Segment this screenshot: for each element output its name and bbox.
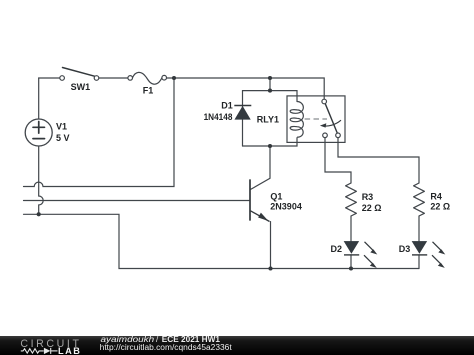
wire node A horizontal y186 with hop and vertical to top rail	[24, 78, 175, 187]
V1 labels	[56, 122, 70, 143]
relay dashed link	[305, 118, 327, 120]
svg-text:SW1: SW1	[71, 82, 91, 92]
wire V1 top lead	[38, 78, 40, 119]
wire D1 top rail	[243, 91, 298, 102]
junction node coil tap top	[268, 76, 272, 80]
diode D1	[234, 106, 251, 120]
transistor Q1	[250, 180, 270, 222]
svg-text:22 Ω: 22 Ω	[430, 202, 450, 212]
junction node D1 top rail	[268, 89, 272, 93]
junction node V1 negative	[37, 212, 41, 216]
wire emitter lead	[270, 222, 272, 269]
relay terminal pins	[322, 99, 327, 104]
svg-text:D2: D2	[331, 244, 343, 254]
junction node F1-right	[172, 76, 176, 80]
fuse F1	[128, 72, 167, 84]
wire bottom net y214 to bottom rail	[24, 214, 420, 268]
footer bar	[0, 336, 474, 355]
svg-text:22 Ω: 22 Ω	[362, 203, 382, 213]
wire relay NO lead to R4	[338, 138, 419, 183]
relay RLY1 box	[287, 96, 345, 142]
LED D2	[344, 241, 377, 268]
junction node D1 bottom rail	[268, 144, 272, 148]
svg-text:D1: D1	[221, 100, 233, 110]
switch SW1	[60, 68, 99, 81]
relay actuation arrow	[320, 120, 341, 127]
wire D1 branch vertical	[242, 91, 244, 146]
svg-text:Q1: Q1	[270, 191, 282, 201]
svg-text:RLY1: RLY1	[257, 115, 279, 125]
wire between SW1 and F1	[99, 77, 128, 79]
resistor R3	[346, 183, 357, 216]
Q1 labels	[270, 191, 302, 211]
svg-text:1N4148: 1N4148	[204, 112, 233, 122]
junction node emitter-ground	[268, 266, 272, 270]
wire D2 to bottom rail	[350, 255, 352, 269]
wire R4 to D3	[418, 216, 420, 241]
wire coil tap to top rail	[269, 78, 271, 91]
wire D3 to bottom rail	[418, 255, 420, 269]
svg-text:5 V: 5 V	[56, 133, 70, 143]
svg-text:R4: R4	[430, 191, 442, 201]
resistor R4	[414, 183, 425, 216]
junction node D2 cathode rail	[349, 266, 353, 270]
wire V1 bottom lead with hop over base wire	[39, 146, 44, 214]
svg-text:D3: D3	[399, 244, 411, 254]
svg-text:F1: F1	[143, 85, 154, 95]
wire top rail left segment	[39, 77, 60, 79]
CircuitLab logo resistor-diode glyph	[21, 348, 58, 354]
wire collector lead	[251, 146, 270, 189]
wire relay NC lead to R3	[325, 138, 351, 183]
LED D3	[412, 241, 445, 268]
R3 labels	[362, 192, 382, 213]
wire D1 bottom rail	[243, 138, 298, 146]
svg-text:LAB: LAB	[58, 346, 81, 355]
svg-text:2N3904: 2N3904	[270, 201, 302, 211]
wire F1 to relay corner	[167, 78, 325, 99]
wire R3 to D2	[350, 216, 352, 241]
svg-text:R3: R3	[362, 192, 374, 202]
D1 labels	[204, 100, 233, 121]
relay coil	[290, 102, 303, 138]
wire base y200	[24, 200, 250, 202]
relay switch lever	[325, 104, 337, 133]
voltage source V1	[25, 119, 52, 146]
svg-text:V1: V1	[56, 122, 67, 132]
svg-text:http://circuitlab.com/cqnds45a: http://circuitlab.com/cqnds45a2336t	[100, 343, 233, 352]
R4 labels	[430, 191, 450, 211]
